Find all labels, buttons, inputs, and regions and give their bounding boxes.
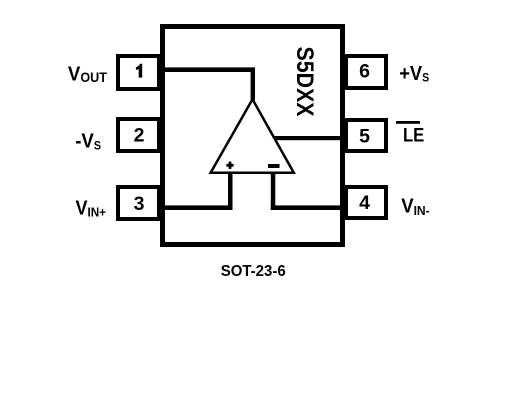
svg-text:2: 2 <box>134 125 145 147</box>
svg-text:6: 6 <box>359 61 370 83</box>
svg-text:3: 3 <box>134 193 145 215</box>
svg-text:SOT-23-6: SOT-23-6 <box>221 263 286 280</box>
svg-text:S5DXX: S5DXX <box>291 47 317 117</box>
svg-text:4: 4 <box>359 192 370 214</box>
svg-text:LE: LE <box>403 125 424 147</box>
svg-text:5: 5 <box>359 126 370 148</box>
